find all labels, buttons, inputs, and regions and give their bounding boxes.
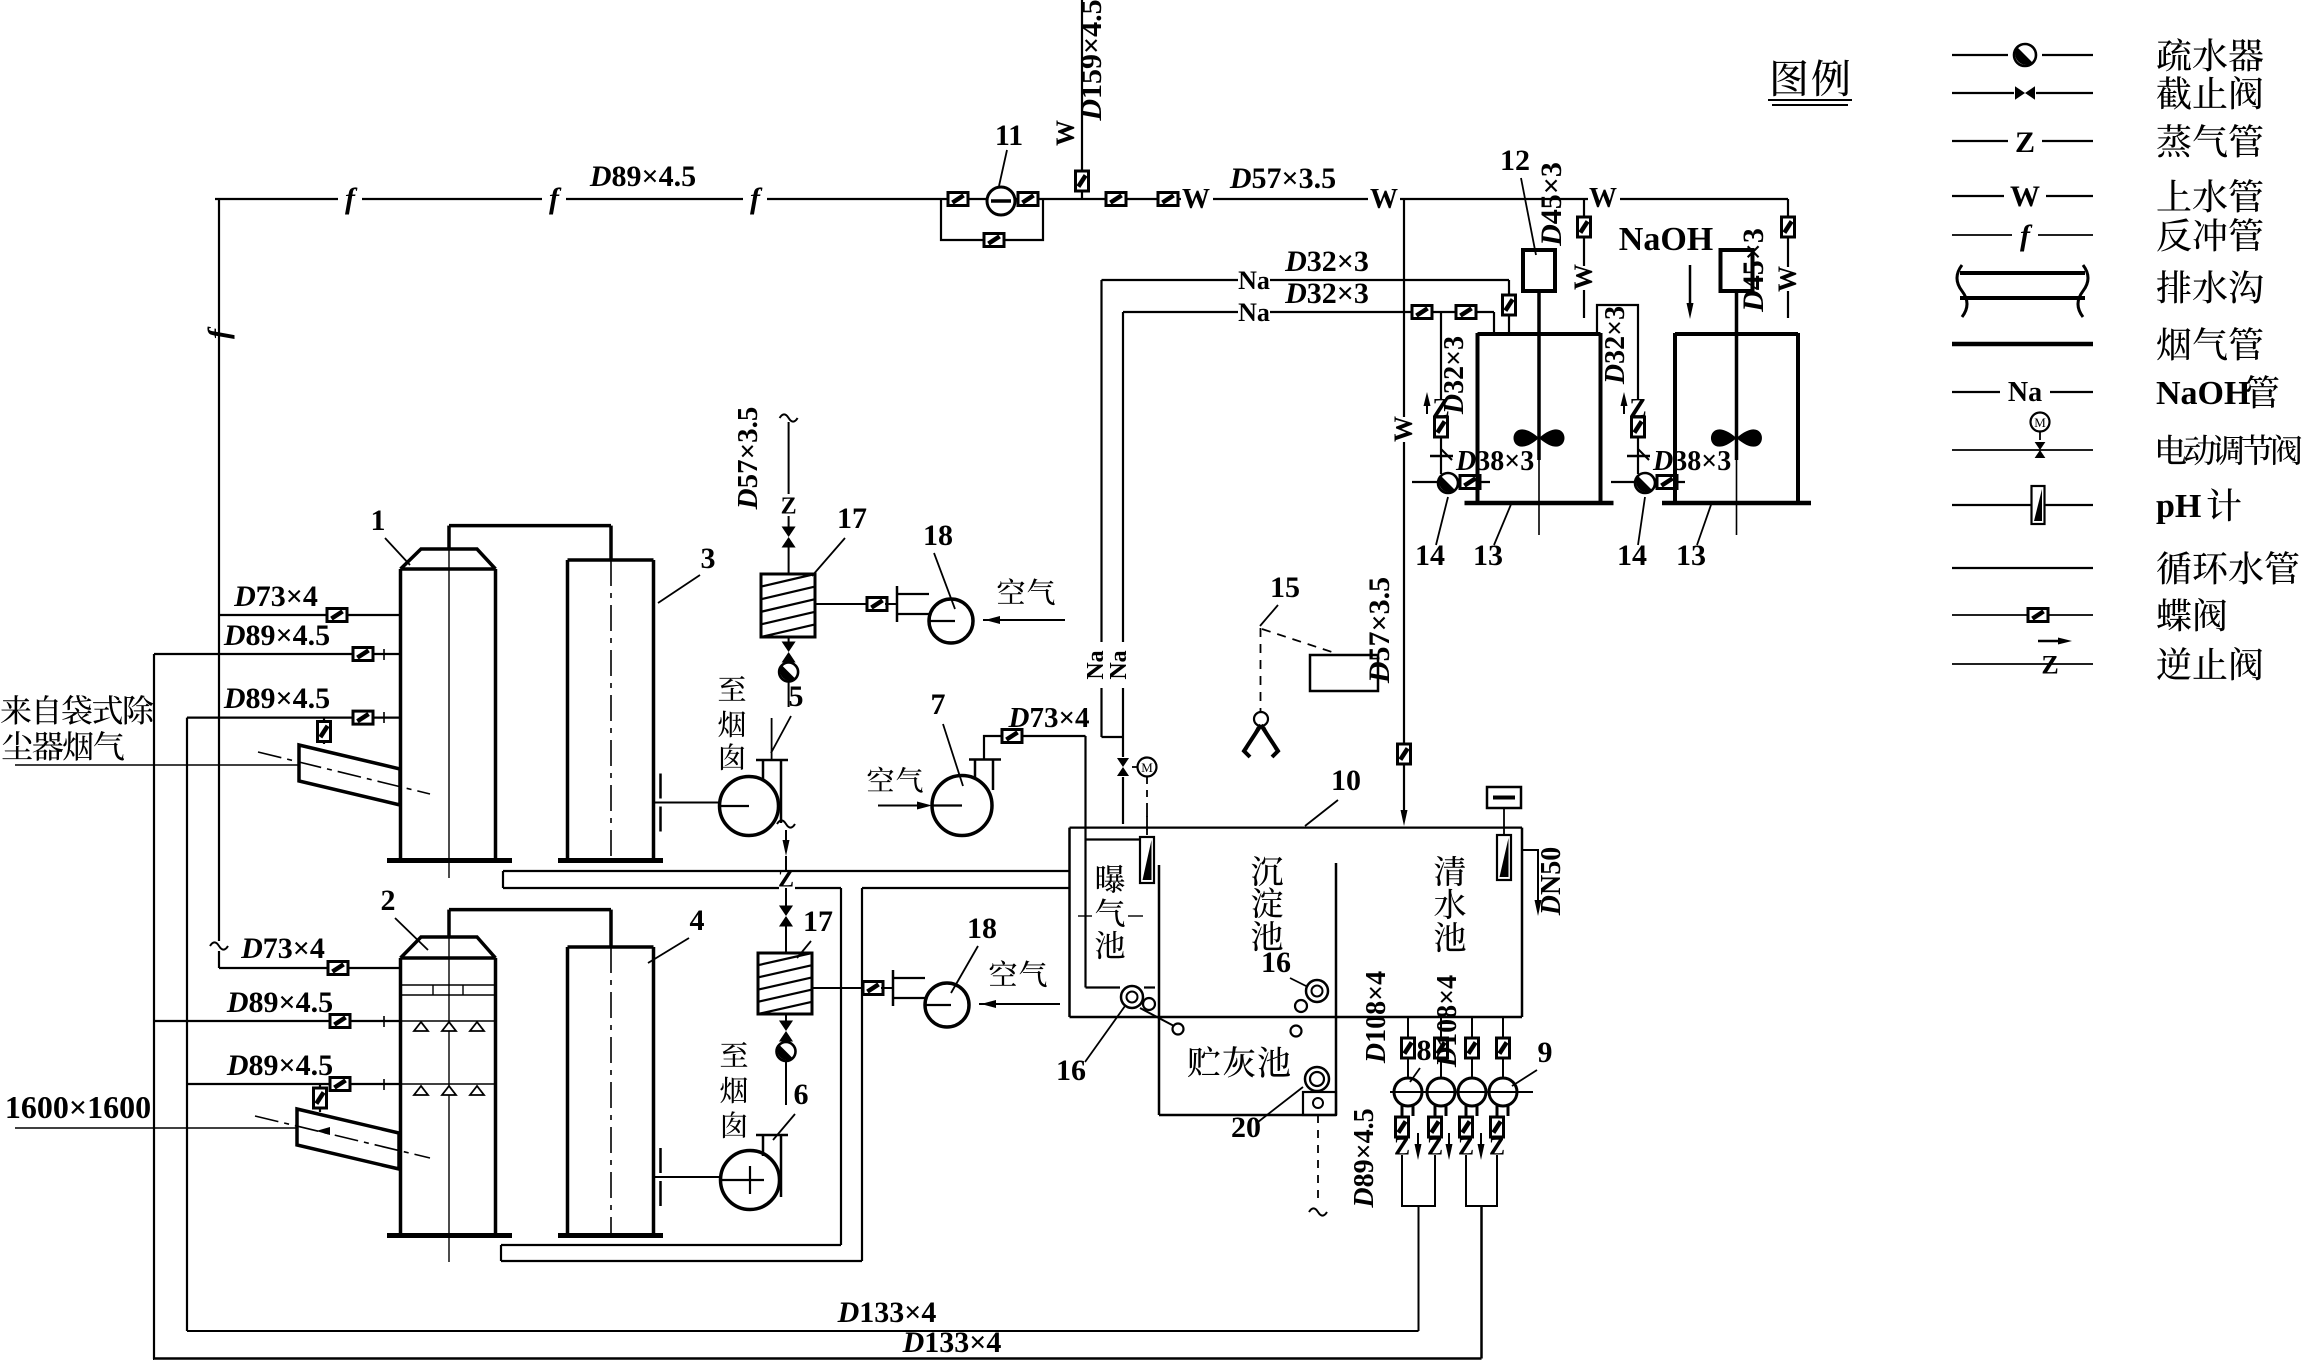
outlet flange	[654, 802, 662, 804]
legend 逆止阀	[1952, 663, 2093, 665]
svg-text:D38×3: D38×3	[1652, 446, 1731, 477]
ash pool bottom	[1159, 1114, 1336, 1117]
scraper 16-2 sedimentation	[1306, 980, 1328, 1002]
text 空气 pump7	[868, 767, 894, 792]
legend 蝶阀	[1952, 614, 2093, 616]
legend 截止阀	[1952, 92, 2014, 94]
scrubber tower at y=569	[401, 549, 496, 569]
svg-text:18: 18	[967, 912, 997, 945]
drain channel bottom band	[501, 1244, 841, 1246]
air inlet arrow	[979, 1003, 1060, 1005]
flue gas inlet line 2 1600x1600	[15, 1127, 297, 1129]
svg-text:D108×4: D108×4	[1361, 971, 1392, 1064]
pH meter clear pool	[1487, 787, 1521, 808]
svg-text:D89×4.5: D89×4.5	[226, 986, 333, 1019]
svg-text:20: 20	[1231, 1111, 1261, 1144]
pipe f vertical drop left	[218, 199, 220, 615]
stub valve to inlet duct 2	[319, 1084, 321, 1112]
scraper 16-1 aeration	[1121, 986, 1143, 1008]
pipe D133x4 upper return	[187, 1330, 1419, 1332]
svg-text:D32×3: D32×3	[1600, 306, 1631, 385]
pH probe aeration pool	[1146, 810, 1148, 835]
svg-text:D89×4.5: D89×4.5	[589, 160, 696, 193]
legend 反冲管	[1952, 234, 2012, 236]
legend title 图例	[1773, 60, 1806, 96]
svg-text:14: 14	[1617, 539, 1647, 572]
wall sedimentation/clear + ash right	[1335, 863, 1338, 1115]
steam/trap assembly 14-1	[1440, 312, 1442, 399]
svg-text:17: 17	[837, 502, 867, 535]
legend 蒸气管	[1952, 140, 2008, 142]
text 清水池	[1435, 856, 1466, 886]
NaOH tank 13 at x=1477.5	[1476, 333, 1480, 501]
steam pipe D57x3.5 drop to HX 17-1	[780, 414, 798, 421]
butterfly valves on lower Na line	[1412, 306, 1432, 319]
fan 5 to chimney	[720, 777, 779, 836]
svg-text:7: 7	[931, 688, 946, 721]
pump header line	[1390, 1091, 1533, 1093]
legend NaOH 管	[1952, 391, 2000, 393]
agitator motor 12	[1523, 250, 1555, 291]
svg-text:pH: pH	[2156, 488, 2201, 525]
svg-text:1: 1	[371, 504, 386, 537]
bypass loop valve 11	[941, 199, 984, 240]
text 至烟囱 fan6	[721, 1042, 748, 1067]
duct centerline	[610, 560, 612, 861]
pipe D133x4 lower return	[153, 1357, 1482, 1360]
pipe Na vertical drops to pool	[1100, 280, 1102, 642]
air inlet arrow	[983, 619, 1065, 621]
NaOH feed arrow	[1648, 250, 1650, 252]
pump circle x=1503	[1489, 1078, 1517, 1106]
drain channel top band	[503, 870, 1070, 872]
tower 2 spray nozzles row 1	[414, 1022, 428, 1031]
wall aeration/sedimentation	[1158, 865, 1161, 1115]
svg-text:Na: Na	[2008, 377, 2042, 408]
svg-text:11: 11	[995, 119, 1023, 152]
svg-text:Z: Z	[2015, 126, 2035, 159]
svg-text:17: 17	[803, 905, 833, 938]
tower 2 spray nozzles row 2	[414, 1086, 428, 1095]
sludge outlet 20	[1305, 1067, 1329, 1091]
pipe D57x3.5 drop to pool 10	[1403, 199, 1405, 417]
electric control valve M on Na line	[1117, 758, 1129, 776]
svg-text:15: 15	[1270, 571, 1300, 604]
svg-text:W: W	[1569, 264, 1598, 290]
line HX to fan 18	[812, 987, 866, 989]
legend 循环水管	[1952, 567, 2093, 569]
fan 6 inlet from duct 4	[661, 1176, 721, 1178]
svg-text:D89×4.5: D89×4.5	[223, 619, 330, 652]
legend 烟气管	[1952, 342, 2093, 347]
pipe D159x4.5 vertical	[1081, 0, 1083, 199]
svg-text:D89×4.5: D89×4.5	[1349, 1108, 1380, 1208]
discharge pair 1 merge	[1402, 1155, 1435, 1206]
chimney stub 5	[756, 759, 788, 762]
svg-text:NaOH: NaOH	[2156, 375, 2250, 412]
svg-text:5: 5	[789, 680, 804, 713]
svg-text:Na: Na	[1106, 650, 1132, 679]
tower 2 centerline	[448, 937, 450, 1262]
svg-text:D57×3.5: D57×3.5	[1229, 162, 1336, 195]
discharge pair 2 merge	[1466, 1155, 1497, 1206]
svg-text:W: W	[2010, 180, 2040, 213]
NaOH tank 13 at x=1675	[1673, 333, 1677, 501]
fan 6 chimney stub	[756, 1134, 788, 1137]
svg-text:1600×1600: 1600×1600	[5, 1089, 151, 1125]
svg-text:10: 10	[1331, 764, 1361, 797]
pipe f backflush header D89x4.5	[215, 198, 338, 200]
fan 18 circle	[929, 599, 973, 643]
svg-text:D89×4.5: D89×4.5	[226, 1049, 333, 1082]
pipe D89x4.5 no1 to tower 1	[154, 653, 400, 655]
svg-text:13: 13	[1473, 539, 1503, 572]
outlet flange	[654, 1176, 662, 1178]
svg-text:DN50: DN50	[1536, 847, 1567, 916]
pipe NaOH upper D32x3	[1102, 279, 1239, 281]
svg-text:D108×4: D108×4	[1432, 975, 1463, 1068]
svg-text:14: 14	[1415, 539, 1445, 572]
svg-text:16: 16	[1056, 1054, 1086, 1087]
pump 7	[932, 776, 992, 836]
inlet duct 2 inclined	[297, 1109, 399, 1169]
heat exchanger 17-2	[758, 953, 812, 1014]
svg-text:Na: Na	[1238, 298, 1270, 327]
legend pH 计	[1952, 504, 2093, 506]
fan 5 discharge down	[777, 820, 795, 827]
svg-text:D32×3: D32×3	[1284, 245, 1369, 278]
pump 7 discharge stub	[969, 758, 1001, 761]
pipe D73x4 from pump 7 to aeration pool	[984, 736, 1086, 760]
lower Na feed drop into tank 13-1	[1493, 312, 1495, 333]
text 至烟囱 fan5	[719, 676, 746, 701]
outlet duct at y=560	[566, 560, 570, 861]
svg-text:8: 8	[1417, 1034, 1432, 1067]
duct centerline	[610, 947, 612, 1236]
HX 17-2 condensate drain	[785, 1014, 787, 1023]
svg-text:Z: Z	[781, 494, 797, 520]
bridge duct	[449, 524, 611, 528]
fan 18 circle	[925, 983, 969, 1027]
svg-text:W: W	[1051, 120, 1080, 146]
pipe D89x4.5 no2 to tower 2	[187, 1083, 400, 1085]
text 曝气池	[1097, 865, 1125, 893]
text 空气	[990, 960, 1017, 986]
tower 2 nozzle header row 1	[402, 1020, 494, 1022]
svg-text:Na: Na	[1238, 266, 1270, 295]
svg-text:18: 18	[923, 519, 953, 552]
svg-text:D38×3: D38×3	[1455, 446, 1534, 477]
svg-text:6: 6	[794, 1078, 809, 1111]
legend 排水沟	[1960, 271, 2085, 275]
text 空气	[998, 578, 1025, 604]
legend 疏水器	[1952, 54, 2008, 56]
heat exchanger 17-1	[761, 574, 815, 637]
svg-text:D89×4.5: D89×4.5	[223, 682, 330, 715]
DN50 outlet	[1522, 850, 1538, 862]
svg-text:D73×4: D73×4	[1008, 702, 1090, 734]
svg-text:D159×4.5: D159×4.5	[1075, 0, 1108, 122]
tower 2 internals: demister lines	[402, 984, 494, 986]
svg-text:D57×3.5: D57×3.5	[732, 407, 764, 511]
svg-text:D133×4: D133×4	[902, 1326, 1002, 1359]
tower 2 nozzle header row 2	[402, 1083, 494, 1085]
pipe NaOH lower D32x3	[1123, 311, 1238, 313]
pump circle x=1408	[1394, 1078, 1422, 1106]
legend 上水管	[1952, 195, 2004, 197]
svg-text:W: W	[1773, 266, 1802, 292]
pump discharges with check valves	[1401, 1104, 1404, 1116]
bridge duct	[449, 908, 611, 912]
svg-text:W: W	[1182, 184, 1210, 215]
svg-text:3: 3	[701, 542, 716, 575]
svg-text:4: 4	[690, 904, 705, 937]
line HX to fan 18	[815, 603, 870, 605]
flue gas inlet line 1	[15, 764, 299, 766]
svg-text:NaOH: NaOH	[1619, 221, 1713, 258]
svg-text:2: 2	[381, 884, 396, 917]
svg-text:D32×3: D32×3	[1439, 336, 1470, 415]
pipe D73x4 to tower 2	[219, 967, 400, 969]
pipe D73x4 to tower 1	[219, 614, 400, 616]
valve on upper Na feed to tank 13-1	[1508, 280, 1510, 295]
inlet duct 1 inclined	[299, 745, 400, 805]
aeration pool inner box	[1086, 838, 1142, 840]
text 贮灰池	[1188, 1046, 1220, 1077]
svg-text:12: 12	[1500, 144, 1530, 177]
fan 6	[721, 1151, 780, 1210]
drain channel right leg	[840, 888, 842, 1245]
steam/trap assembly 14-2	[1597, 305, 1638, 399]
svg-text:W: W	[1389, 416, 1418, 442]
circulating water riser x154	[153, 654, 155, 1359]
pipe W header D57x3.5	[1178, 198, 1181, 200]
svg-text:D73×4: D73×4	[240, 932, 325, 965]
svg-text:13: 13	[1676, 539, 1706, 572]
pump circle x=1441	[1427, 1078, 1455, 1106]
svg-text:16: 16	[1261, 946, 1291, 979]
svg-text:D45×3: D45×3	[1535, 162, 1568, 247]
W branch D45x3 to tank 13-1	[1583, 199, 1585, 217]
agitator motor 12	[1721, 250, 1753, 291]
svg-text:W: W	[1370, 184, 1398, 215]
W branch D45x3 to tank 13-2	[1787, 199, 1789, 217]
text 沉淀池	[1252, 856, 1283, 886]
pipe D89x4.5 no2 to tower 1	[187, 716, 400, 718]
svg-text:D32×3: D32×3	[1284, 277, 1369, 310]
svg-text:D133×4: D133×4	[837, 1296, 937, 1329]
pipe f vertical to tower 2 section	[218, 615, 220, 941]
text 来自袋式除尘器烟气	[1, 695, 31, 725]
fan 5 inlet from duct 3	[661, 802, 720, 804]
pool 10 outline	[1070, 826, 1523, 828]
legend 电动调节阀	[1952, 449, 2093, 451]
tower 1 centerline	[448, 549, 450, 878]
svg-text:Z: Z	[2041, 650, 2058, 679]
pump circle x=1472	[1458, 1078, 1486, 1106]
stub valve to inlet duct 1	[323, 718, 325, 744]
svg-text:9: 9	[1538, 1036, 1553, 1069]
svg-text:D57×3.5: D57×3.5	[1363, 577, 1396, 684]
svg-text:M: M	[1141, 760, 1153, 775]
svg-text:D73×4: D73×4	[233, 580, 318, 613]
signal dashed to pH probe	[1146, 777, 1148, 835]
svg-text:M: M	[2034, 415, 2046, 430]
pipe D89x4.5 no1 to tower 2	[154, 1020, 400, 1022]
outlet duct at y=947	[566, 947, 570, 1236]
valve assembly 11 with bypass	[941, 198, 949, 200]
condensate into chimney 5	[771, 718, 773, 760]
pump suction lines from clear pool	[1407, 1017, 1409, 1078]
circulating water riser x187	[186, 718, 188, 1331]
scrubber tower at y=958	[401, 937, 496, 958]
HX 17-1 condensate drain	[788, 637, 790, 645]
svg-text:W: W	[1589, 183, 1617, 214]
butterfly valves on W header	[1106, 193, 1126, 206]
air arrow to pump 7	[878, 805, 920, 807]
